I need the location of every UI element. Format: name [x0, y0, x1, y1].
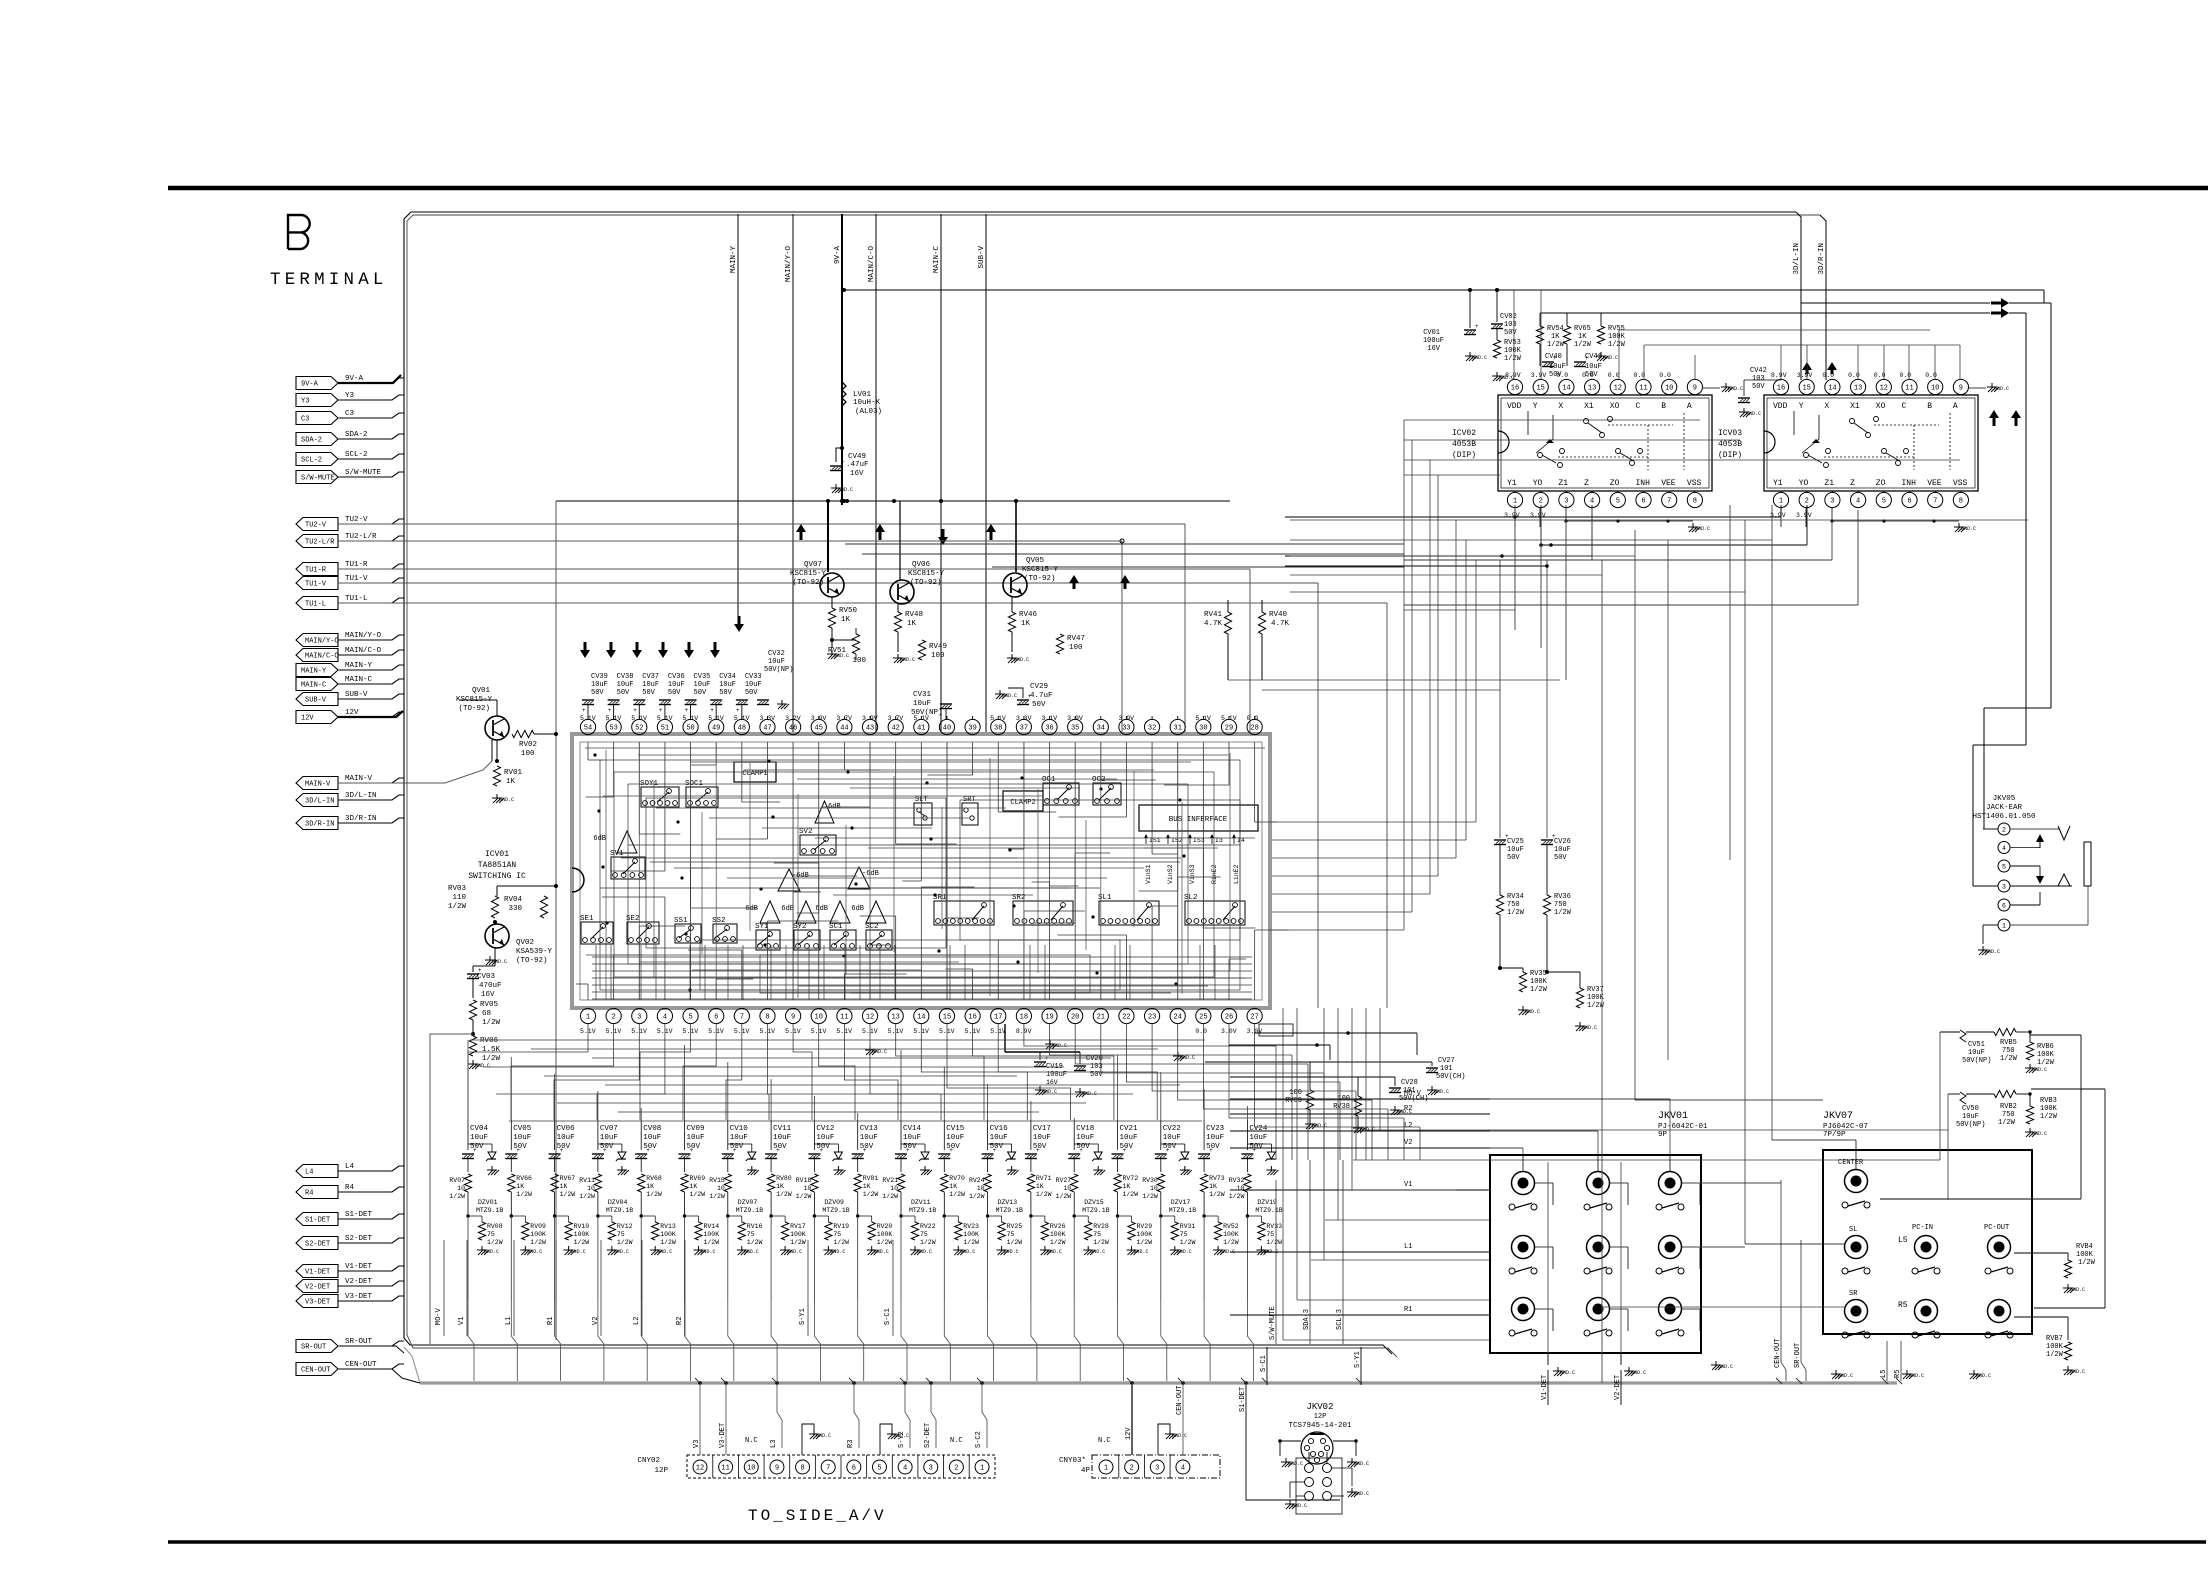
- resistor RV40: [1258, 611, 1289, 634]
- svg-text:10uF: 10uF: [687, 1134, 705, 1142]
- svg-text:CV40: CV40: [1545, 353, 1562, 361]
- wire: [792, 892, 794, 1000]
- wire: [818, 1007, 820, 1009]
- wire: [715, 979, 717, 1000]
- wire: [638, 1007, 640, 1009]
- switch: [1509, 1329, 1537, 1336]
- wire: [638, 926, 640, 1000]
- svg-text:10uF: 10uF: [642, 681, 659, 689]
- wire: [1317, 583, 1319, 1008]
- wire: [1339, 1189, 1456, 1191]
- wire MAIN/C-O vertical: [875, 214, 877, 735]
- pin 41 voltage: [913, 715, 929, 722]
- wire 9V-A lower: [841, 406, 843, 505]
- pin 40: [939, 719, 954, 734]
- resistor RV06: [469, 1036, 500, 1063]
- wire: [1404, 609, 1515, 611]
- svg-text:1/2W: 1/2W: [1180, 1239, 1196, 1246]
- wire: [1117, 1216, 1119, 1300]
- svg-text:B: B: [1661, 402, 1666, 411]
- switch: [1656, 1267, 1684, 1274]
- wire: [1948, 1093, 2031, 1095]
- junction: [510, 1214, 513, 1217]
- svg-text:6dB: 6dB: [815, 905, 828, 913]
- wire: [597, 1120, 599, 1172]
- wire: [338, 454, 404, 459]
- wire: [1011, 632, 1013, 652]
- wire: [653, 781, 655, 977]
- svg-text:9V-A: 9V-A: [345, 375, 364, 383]
- wire: [1566, 507, 1693, 521]
- wire: [587, 716, 589, 719]
- wire: [1011, 597, 1013, 612]
- wire: [977, 1378, 983, 1384]
- wire: [844, 769, 879, 771]
- junction: [724, 1381, 728, 1385]
- svg-text:100: 100: [521, 750, 535, 758]
- resistor RV19: [814, 1216, 849, 1255]
- wire: [814, 1143, 838, 1145]
- wire: [1667, 540, 1669, 1060]
- junction: [1091, 915, 1094, 918]
- wire: [1254, 930, 1256, 1000]
- svg-text:50V: 50V: [745, 689, 758, 697]
- svg-text:SWITCHING IC: SWITCHING IC: [468, 872, 526, 881]
- wire: [860, 915, 896, 917]
- capacitor CV11: [765, 1125, 792, 1159]
- svg-text:+: +: [710, 707, 714, 714]
- svg-text:12P: 12P: [654, 1467, 668, 1475]
- wire: [1634, 530, 1636, 1100]
- wire: [741, 1007, 743, 1009]
- wire: [338, 395, 404, 400]
- wire: [1033, 922, 1075, 924]
- svg-text:GND.C: GND.C: [744, 1249, 759, 1255]
- svg-text:10uF: 10uF: [913, 700, 931, 708]
- wire: [640, 1024, 691, 1120]
- capacitor CV06: [549, 1125, 576, 1159]
- svg-text:3.7V: 3.7V: [836, 715, 852, 722]
- svg-text:DZV15: DZV15: [1084, 1199, 1104, 1206]
- junction: [1116, 1214, 1119, 1217]
- wire: [843, 1007, 845, 1009]
- pin 25: [1196, 1008, 1211, 1023]
- wire: [1437, 475, 1439, 876]
- wire: [1023, 742, 1025, 849]
- svg-text:10uF: 10uF: [694, 681, 711, 689]
- wire: [1379, 1008, 1381, 1130]
- capacitor CV21: [1112, 1125, 1139, 1159]
- svg-text:GND.C: GND.C: [894, 1433, 909, 1439]
- wire: [1125, 1007, 1127, 1009]
- label PC-OUT: [1984, 1224, 2009, 1232]
- wire: [857, 1192, 859, 1216]
- pin 8: [760, 1008, 775, 1023]
- capacitor CV37: [633, 673, 659, 714]
- net label V2-DET: [1614, 1375, 1622, 1400]
- wire: [1882, 1378, 1888, 1384]
- svg-text:1/2W: 1/2W: [1142, 1193, 1158, 1200]
- svg-text:1/2W: 1/2W: [449, 1193, 465, 1200]
- svg-text:GND.C: GND.C: [816, 1433, 831, 1439]
- capacitor CV32: [757, 650, 793, 709]
- pin 4: [1998, 842, 2010, 854]
- svg-text:54: 54: [584, 725, 592, 733]
- svg-text:16V: 16V: [481, 991, 495, 999]
- wire: [338, 523, 1185, 525]
- net label MAIN/Y-O: [785, 246, 793, 283]
- pin 11 voltage: [836, 1028, 852, 1035]
- junction: [605, 921, 608, 924]
- svg-text:3.3V: 3.3V: [1016, 715, 1032, 722]
- svg-text:+: +: [1036, 1147, 1040, 1154]
- wire: [1157, 1432, 1159, 1455]
- wire: [554, 1192, 556, 1216]
- svg-text:MAIN/Y-O: MAIN/Y-O: [305, 638, 339, 646]
- svg-text:1/2W: 1/2W: [660, 1239, 676, 1246]
- wire: [1620, 1162, 1622, 1353]
- pin label VEE: [1661, 479, 1676, 488]
- label JKV05: [1972, 795, 2036, 821]
- pin 46 voltage: [785, 715, 801, 722]
- svg-text:1/2W: 1/2W: [796, 1193, 812, 1200]
- junction: [1932, 519, 1935, 522]
- wire: [466, 1240, 468, 1336]
- wire: [1074, 853, 1076, 1000]
- wire: [1177, 742, 1179, 1000]
- svg-text:GND.C: GND.C: [1292, 1503, 1307, 1509]
- voltage 0.0: [1822, 372, 1834, 379]
- pin 17 voltage: [990, 1028, 1006, 1035]
- jack JKV01 22: [1587, 1236, 1610, 1259]
- svg-text:Y3: Y3: [345, 392, 355, 400]
- wire: [1356, 1378, 1362, 1384]
- junction: [980, 1381, 984, 1385]
- wire: [1832, 507, 1959, 521]
- svg-text:RVB2: RVB2: [2000, 1103, 2017, 1111]
- headphone plug: [2084, 842, 2091, 886]
- wire MAIN-C vertical: [940, 214, 942, 735]
- jack JKV01 13: [1659, 1172, 1682, 1195]
- wire: [727, 1216, 729, 1300]
- wire: [1117, 1055, 1119, 1120]
- wire: [467, 1120, 469, 1172]
- pin 21: [1093, 1008, 1108, 1023]
- wire: [1290, 574, 1602, 576]
- wire: [1228, 959, 1230, 1000]
- wire: [338, 1364, 404, 1369]
- signal arrow up: [1827, 362, 1837, 374]
- cell divider: [917, 1455, 919, 1478]
- junction: [943, 1214, 946, 1217]
- capacitor CV19: [1005, 1052, 1080, 1095]
- junction: [856, 1214, 859, 1217]
- svg-text:0.0: 0.0: [1582, 372, 1594, 379]
- wire: [338, 1281, 404, 1286]
- svg-text:39: 39: [968, 725, 976, 733]
- inductor LV01: [842, 382, 882, 416]
- wire: [998, 1024, 1157, 1120]
- pin 14 voltage: [913, 1028, 929, 1035]
- svg-text:TCS7945-14-201: TCS7945-14-201: [1288, 1422, 1352, 1430]
- wire: [640, 945, 642, 1000]
- wire: [721, 1378, 727, 1384]
- wire: [646, 798, 946, 948]
- junction: [1564, 519, 1567, 522]
- wire: [709, 817, 969, 819]
- svg-text:+: +: [906, 1147, 910, 1154]
- svg-text:100: 100: [931, 652, 945, 660]
- signal arrow right: [1991, 308, 2009, 318]
- wire: [972, 716, 974, 719]
- wire: [767, 920, 838, 922]
- svg-text:1/2W: 1/2W: [1093, 1239, 1109, 1246]
- svg-text:RV34: RV34: [1507, 893, 1524, 901]
- wire: [587, 705, 589, 719]
- switch: [1584, 1267, 1612, 1274]
- wire: [987, 1192, 989, 1216]
- wire: [1246, 1120, 1248, 1172]
- wire: [611, 870, 665, 872]
- wire: [843, 974, 845, 1000]
- wire: [684, 1120, 686, 1172]
- svg-text:RV38: RV38: [1333, 1103, 1350, 1111]
- capacitor CV50: [1956, 1092, 1985, 1129]
- wire: [1771, 505, 1773, 1140]
- ground: [1173, 1052, 1195, 1061]
- svg-text:TU1-R: TU1-R: [305, 567, 327, 575]
- svg-text:SDA-2: SDA-2: [345, 431, 368, 439]
- wire: [1455, 520, 1457, 858]
- wire: [691, 867, 711, 869]
- resistor RVB6: [2025, 1030, 2055, 1073]
- svg-text:3D/L-IN: 3D/L-IN: [305, 798, 334, 806]
- svg-text:1K: 1K: [690, 1183, 698, 1190]
- signal arrow up: [875, 524, 885, 540]
- wire: [338, 1341, 404, 1346]
- svg-text:(TO-92): (TO-92): [792, 579, 824, 587]
- wire: [1151, 742, 1153, 854]
- svg-text:VEE: VEE: [1927, 479, 1942, 488]
- ground: [893, 654, 915, 663]
- pin label IS3: [1188, 834, 1205, 844]
- svg-text:6dB: 6dB: [745, 905, 758, 913]
- pin 1: [975, 1460, 989, 1474]
- switch SLT: [914, 796, 932, 825]
- svg-text:3D/R-IN: 3D/R-IN: [305, 821, 334, 829]
- ground: [831, 484, 853, 493]
- wire: [766, 742, 768, 839]
- pin 26 voltage: [1221, 1028, 1237, 1035]
- wire: [988, 1143, 1012, 1145]
- wire: [338, 472, 404, 477]
- svg-text:JACK-EAR: JACK-EAR: [1986, 804, 2023, 812]
- capacitor CV23: [1198, 1125, 1225, 1159]
- wire: [1030, 1192, 1032, 1216]
- pin 43 voltage: [862, 715, 878, 722]
- wire: [1246, 1106, 1248, 1120]
- svg-text:RV17: RV17: [790, 1223, 806, 1230]
- pin label Y: [1533, 402, 1538, 411]
- wire: [1024, 910, 1085, 912]
- wire: [614, 954, 643, 956]
- net label C3: [345, 410, 355, 418]
- switch SE2: [626, 915, 659, 944]
- svg-text:PC-OUT: PC-OUT: [1984, 1224, 2009, 1232]
- switch: [1656, 1203, 1684, 1210]
- svg-text:GND.C: GND.C: [1961, 526, 1976, 532]
- net label L1: [505, 1317, 513, 1325]
- pin label A: [1953, 402, 1958, 411]
- wire: [472, 979, 474, 998]
- svg-text:R4: R4: [305, 1190, 313, 1198]
- label JKV02: [1288, 1402, 1352, 1430]
- wire: [960, 800, 1240, 940]
- wire: [338, 598, 404, 603]
- wire: [1635, 1099, 1823, 1101]
- svg-text:5: 5: [1616, 498, 1620, 506]
- pin 50 voltage: [683, 715, 699, 722]
- wire: [896, 1024, 984, 1120]
- resistor RV01: [493, 766, 522, 786]
- wire: [1535, 1183, 1554, 1205]
- wire: [1305, 1110, 1327, 1129]
- wire: [1973, 885, 1998, 887]
- svg-text:A: A: [1953, 402, 1958, 411]
- signal arrow: [2036, 834, 2044, 848]
- svg-text:CV14: CV14: [903, 1125, 922, 1133]
- svg-text:5.1V: 5.1V: [708, 715, 724, 722]
- wire: [1983, 828, 1998, 830]
- svg-text:1/2W: 1/2W: [2046, 1351, 2064, 1359]
- svg-text:CV29: CV29: [1030, 683, 1048, 691]
- cell divider: [943, 1455, 945, 1478]
- svg-text:RVB3: RVB3: [2040, 1097, 2057, 1105]
- capacitor CV27: [1426, 1057, 1465, 1095]
- svg-text:75: 75: [1180, 1231, 1188, 1238]
- wire: [793, 875, 857, 877]
- svg-text:PC-IN: PC-IN: [1912, 1224, 1933, 1232]
- pin 29: [1221, 719, 1236, 734]
- svg-text:CV37: CV37: [642, 673, 659, 681]
- wire: [1030, 1216, 1032, 1300]
- pin label VSS: [1687, 479, 1702, 488]
- svg-text:16: 16: [968, 1014, 976, 1022]
- wire: [1280, 1441, 1356, 1456]
- wire: [1143, 847, 1203, 849]
- pin label A: [1687, 402, 1692, 411]
- wire: [831, 597, 833, 608]
- pin 3: [924, 1460, 938, 1474]
- svg-text:10uF: 10uF: [668, 681, 685, 689]
- wire: [946, 716, 948, 719]
- wire: [987, 1216, 989, 1300]
- top border rule: [168, 186, 2208, 191]
- wire: [1311, 1259, 1490, 1261]
- pin 42 voltage: [888, 715, 904, 722]
- wire: [338, 795, 404, 800]
- svg-text:75: 75: [1007, 1231, 1015, 1238]
- wire: [1254, 716, 1256, 719]
- svg-text:GND.C: GND.C: [1047, 1249, 1062, 1255]
- pin 5: [1610, 491, 1625, 508]
- wire: [813, 1216, 815, 1300]
- svg-text:50V(CH): 50V(CH): [1436, 1073, 1465, 1081]
- svg-text:RV29: RV29: [1137, 1223, 1153, 1230]
- svg-text:MAIN-Y: MAIN-Y: [345, 662, 373, 670]
- svg-text:1/2W: 1/2W: [1507, 909, 1525, 917]
- wire: [931, 1385, 936, 1448]
- net label CEN-OUT: [1176, 1386, 1184, 1415]
- wire: [1535, 1309, 1554, 1331]
- svg-text:(DIP): (DIP): [1452, 451, 1476, 460]
- wire: [1565, 505, 1567, 680]
- ground: [865, 1046, 887, 1055]
- svg-text:5: 5: [877, 1465, 881, 1473]
- wire: [1355, 1091, 1357, 1160]
- wire: [1125, 716, 1127, 719]
- svg-text:100K: 100K: [1608, 333, 1626, 341]
- wire: [473, 948, 495, 972]
- capacitor CV40: [1542, 353, 1566, 379]
- diode DZV07: [736, 1144, 763, 1214]
- pin 11: [1902, 379, 1917, 395]
- wire: [1522, 1155, 1524, 1171]
- net label V1-DET: [1541, 1375, 1549, 1400]
- switch SS1: [674, 917, 701, 943]
- wire: [338, 578, 404, 583]
- junction: [495, 759, 499, 763]
- svg-text:10: 10: [747, 1465, 755, 1473]
- wire: [1610, 1183, 1629, 1205]
- svg-text:12: 12: [1880, 385, 1888, 393]
- svg-text:9: 9: [1693, 385, 1697, 393]
- wire: [1339, 1082, 1341, 1160]
- junction: [892, 499, 896, 503]
- svg-text:75: 75: [487, 1231, 495, 1238]
- pin 27: [1247, 1008, 1262, 1023]
- svg-text:50V: 50V: [591, 689, 604, 697]
- svg-text:3.9V: 3.9V: [1796, 512, 1812, 519]
- svg-text:DZV19: DZV19: [1257, 1199, 1277, 1206]
- wire: [1386, 603, 1388, 1008]
- pin 33 voltage: [1118, 715, 1134, 722]
- svg-text:RV36: RV36: [1554, 893, 1571, 901]
- svg-text:SC2: SC2: [865, 923, 879, 931]
- label JKV07: [1823, 1111, 1868, 1139]
- svg-text:L3: L3: [770, 1440, 778, 1448]
- svg-text:48: 48: [738, 725, 746, 733]
- wire: [1360, 1347, 1362, 1385]
- svg-text:+: +: [516, 1147, 520, 1154]
- pin 10: [1662, 379, 1677, 395]
- junction: [1882, 519, 1885, 522]
- label N.C: [745, 1437, 758, 1445]
- pin label I4: [1232, 834, 1245, 844]
- ground: [1347, 1458, 1369, 1467]
- wire: [1272, 839, 1466, 841]
- svg-text:RV73: RV73: [1209, 1175, 1225, 1182]
- svg-text:RV22: RV22: [920, 1223, 936, 1230]
- pin 30: [1196, 719, 1211, 734]
- wire: [1073, 1216, 1075, 1300]
- wire: [843, 742, 845, 770]
- pin 2: [1125, 1460, 1139, 1474]
- svg-text:1/2W: 1/2W: [882, 1193, 898, 1200]
- label CNY03: [1059, 1457, 1091, 1475]
- svg-text:V1-DET: V1-DET: [345, 1263, 373, 1271]
- wire: [894, 945, 896, 1000]
